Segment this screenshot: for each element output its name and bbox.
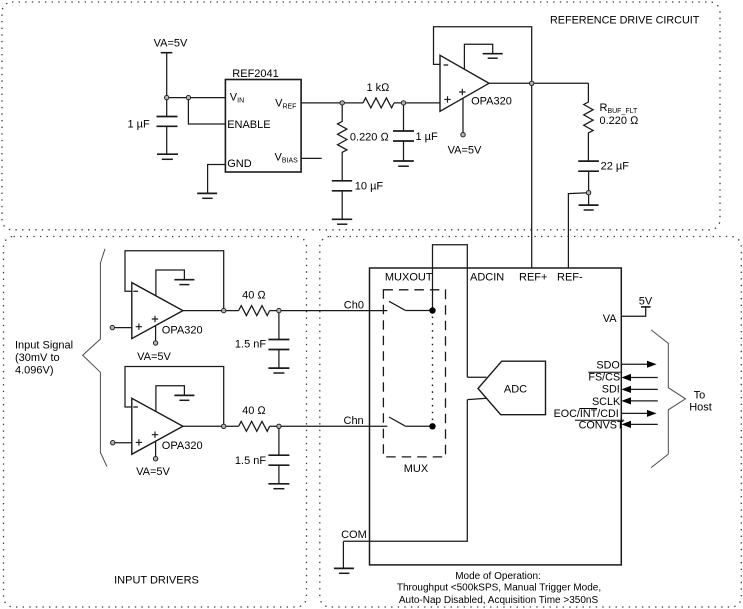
switch contact dot SW2 [429,423,435,429]
op-amp U2 OPA320 triangle [132,283,183,339]
junction node C4 / REF- [586,191,590,195]
svg-text:OPA320: OPA320 [471,95,512,107]
wire GND pin to ground [208,165,226,194]
op-amp U3 V+ supply stem [155,441,157,456]
svg-text:5V: 5V [639,295,653,307]
svg-text:Chn: Chn [344,415,364,427]
svg-text:1 kΩ: 1 kΩ [366,82,390,94]
resistor R1 1 kOhm [363,98,394,108]
signal line SCLK [629,400,658,402]
wire COM to ADC flag [343,398,487,541]
signal line SDO [621,363,648,365]
wire junction to ground [588,193,590,205]
ground below C2 [332,218,352,220]
reference drive circuit dotted border [2,2,720,230]
junction node VIN 2 [186,95,190,99]
arrowhead SCLK left [621,397,631,404]
op-amp U1 V- pin to ground wire [464,44,492,69]
power VA=5V rail bar (top-left) [161,52,173,54]
dotted mux connection [432,317,434,422]
svg-text:VA=5V: VA=5V [136,466,170,478]
wire VREF pin to node [301,102,363,104]
wire C5 to ground [278,350,280,369]
op-amp U3 OPA320 triangle [132,398,183,454]
junction node R5-C6 [277,424,281,428]
svg-text:VA: VA [603,313,618,325]
wire C4 to junction [588,171,590,193]
capacitor C6 1.5nF stem [278,426,280,455]
IC REF2041 box [225,80,301,173]
svg-text:VA=5V: VA=5V [154,38,188,50]
op-amp U2 feedback loop wire [125,251,224,311]
ground below C5 [268,367,289,369]
ADC section dotted border [320,237,742,608]
junction node U2 output [222,308,226,312]
ADC flag pentagon [478,361,546,415]
svg-text:Throughput <500kSPS, Manual Tr: Throughput <500kSPS, Manual Trigger Mode… [397,583,601,594]
op-amp U1 output wire [489,82,588,84]
signal line EOC/INT/CDI [621,412,648,414]
op-amp U1 feedback loop wire [434,27,532,84]
capacitor C5 1.5nF plates [268,340,289,350]
svg-text:Input Signal: Input Signal [15,339,73,351]
plus marker U1 supply [459,89,465,95]
signal line SDI [629,388,658,390]
op-amp U3 output wire to Chn [183,425,239,427]
plus marker U3 input [136,439,142,445]
svg-text:1.5 nF: 1.5 nF [235,339,266,351]
junction node U1 output / REF+ [530,81,534,85]
power 5V rail bar [641,306,651,308]
svg-text:SCLK: SCLK [592,396,621,408]
op-amp U2 V- pin to ground wire [156,270,185,296]
svg-text:1 µF: 1 µF [416,131,439,143]
wire REF- from junction down to ADC [568,193,588,268]
capacitor C6 1.5nF plates [268,455,289,465]
wire C3 to ground [403,141,405,161]
junction node VREF-R2 [340,101,344,105]
resistor R2 0.220 Ohm vertical [338,103,347,181]
wire R4 to node [270,310,388,312]
capacitor C1 1uF plates [157,117,178,127]
wire VA pin to 5V [621,307,645,316]
op-amp U1 OPA320 triangle [440,55,489,111]
arrowhead EOC right [647,410,657,417]
svg-text:OPA320: OPA320 [162,324,203,336]
op-amp U2 V+ supply stem [155,326,157,341]
wire SW1 to dot [405,310,432,312]
arrowhead SDI left [621,386,631,393]
op-amp U3 V- pin to ground wire [156,386,185,412]
svg-text:ADC: ADC [504,384,527,396]
svg-text:VA=5V: VA=5V [448,144,482,156]
terminal input signal 1 [110,325,114,329]
ground below C4 [579,204,599,206]
resistor R5 40 Ohm [239,421,270,431]
svg-text:COM: COM [341,529,367,541]
switch SW1 lever [389,301,405,310]
brace input signal [83,249,107,467]
svg-text:40 Ω: 40 Ω [242,405,266,417]
signal line CONVST [629,423,658,425]
svg-text:OPA320: OPA320 [162,440,203,452]
terminal U1 VA supply [461,133,465,137]
ground above U2 [174,279,194,281]
capacitor C2 10uF plates [332,181,352,191]
ground below C6 [268,483,289,485]
capacitor C3 1uF stem [403,103,405,131]
svg-text:MUX: MUX [404,463,429,475]
MUX dashed box [383,290,445,457]
svg-text:GND: GND [227,158,252,170]
wire R1 to node2 [394,102,440,104]
svg-text:REFERENCE DRIVE CIRCUIT: REFERENCE DRIVE CIRCUIT [550,15,700,27]
resistor R4 40 Ohm [239,306,270,316]
svg-text:ADCIN: ADCIN [470,272,504,284]
wire input terminal 1 to U2 [115,327,132,329]
svg-text:CONVST: CONVST [579,419,624,431]
wire VA rail down [166,53,168,98]
wire C2 to ground [341,191,343,220]
svg-text:SDI: SDI [602,383,620,395]
capacitor C3 1uF plates [393,131,414,141]
wire MUXOUT loop to ADCIN [433,245,468,377]
svg-text:MUXOUT: MUXOUT [385,272,433,284]
resistor R3 RBUF_FLT vertical [584,83,593,161]
svg-text:Mode of Operation:: Mode of Operation: [455,571,541,582]
svg-text:Host: Host [689,401,712,413]
svg-text:1 µF: 1 µF [127,118,150,130]
svg-text:40 Ω: 40 Ω [242,290,266,302]
switch SW2 lever [389,417,405,426]
svg-text:REF+: REF+ [519,272,547,284]
junction node U3 output [222,424,226,428]
ground below C1 [157,153,178,155]
svg-text:INPUT DRIVERS: INPUT DRIVERS [114,575,199,587]
wire REF+ down to ADC [531,83,533,268]
arrowhead CONVST left [621,421,631,428]
svg-text:VA=5V: VA=5V [137,351,171,363]
arrowhead SDO right [647,361,657,368]
svg-text:(30mV to: (30mV to [15,352,60,364]
op-amp U3 feedback loop wire [125,367,224,427]
svg-text:FS/CS: FS/CS [588,372,620,384]
wire ENABLE from VIN junction [188,98,225,124]
terminal U2 VA supply [153,341,157,345]
junction node VIN 1 [165,95,169,99]
svg-text:1.5 nF: 1.5 nF [235,455,266,467]
op-amp U1 V+ supply stem [462,98,464,132]
wire COM to ground [342,541,344,568]
capacitor C1 1uF stem top [166,98,168,117]
svg-text:0.220 Ω: 0.220 Ω [600,115,640,127]
plus marker U2 input [136,324,142,330]
junction node R1-C3 [401,101,405,105]
svg-text:4.096V): 4.096V) [15,364,54,376]
wire input terminal 2 to U3 [115,442,132,444]
wire R5 to node [270,425,388,427]
terminal U3 VA supply [153,457,157,461]
svg-text:SDO: SDO [596,360,619,372]
plus marker U2 supply [152,316,158,322]
ground above U3 [174,394,194,396]
capacitor C4 22uF plates [578,161,599,171]
minus marker U1 [444,64,449,66]
ground below COM [334,567,354,569]
svg-text:Ch0: Ch0 [344,299,364,311]
wire SW2 to dot [405,425,432,427]
svg-text:REF2041: REF2041 [232,68,278,80]
brace to host [651,330,685,468]
wire C6 to ground [278,465,280,484]
wire VA junction to REF2041 VIN pin [167,97,226,99]
minus marker U3 [133,406,138,408]
wire ADCIN stub to ADC flag [467,376,486,378]
svg-text:Auto-Nap Disabled, Acquisition: Auto-Nap Disabled, Acquisition Time >350… [399,595,599,606]
svg-text:EOC/INT/CDI: EOC/INT/CDI [554,408,619,420]
svg-text:22 µF: 22 µF [601,160,630,172]
signal line FS/CS [629,377,658,379]
terminal input signal 2 [111,441,115,445]
svg-text:To: To [694,390,706,402]
IC ADC outer box [370,268,622,565]
svg-text:10 µF: 10 µF [355,180,384,192]
wire C1 to ground [166,126,168,154]
junction node R4-C5 [277,308,281,312]
input drivers dotted border [4,237,307,608]
svg-text:REF-: REF- [557,272,583,284]
svg-text:ENABLE: ENABLE [227,119,270,131]
wire VBIAS stub [301,157,322,159]
op-amp U2 output wire to Ch0 [183,310,239,312]
switch contact dot SW1 [429,307,435,313]
svg-text:0.220 Ω: 0.220 Ω [350,132,390,144]
capacitor C5 1.5nF stem [278,311,280,340]
plus marker U1 input [444,96,450,102]
arrowhead FS/CS left [621,374,631,381]
ground above U1 [483,53,503,55]
ground below GND pin [197,192,217,194]
ground below C3 [393,160,414,162]
plus marker U3 supply [152,432,158,438]
minus marker U2 [133,290,138,292]
